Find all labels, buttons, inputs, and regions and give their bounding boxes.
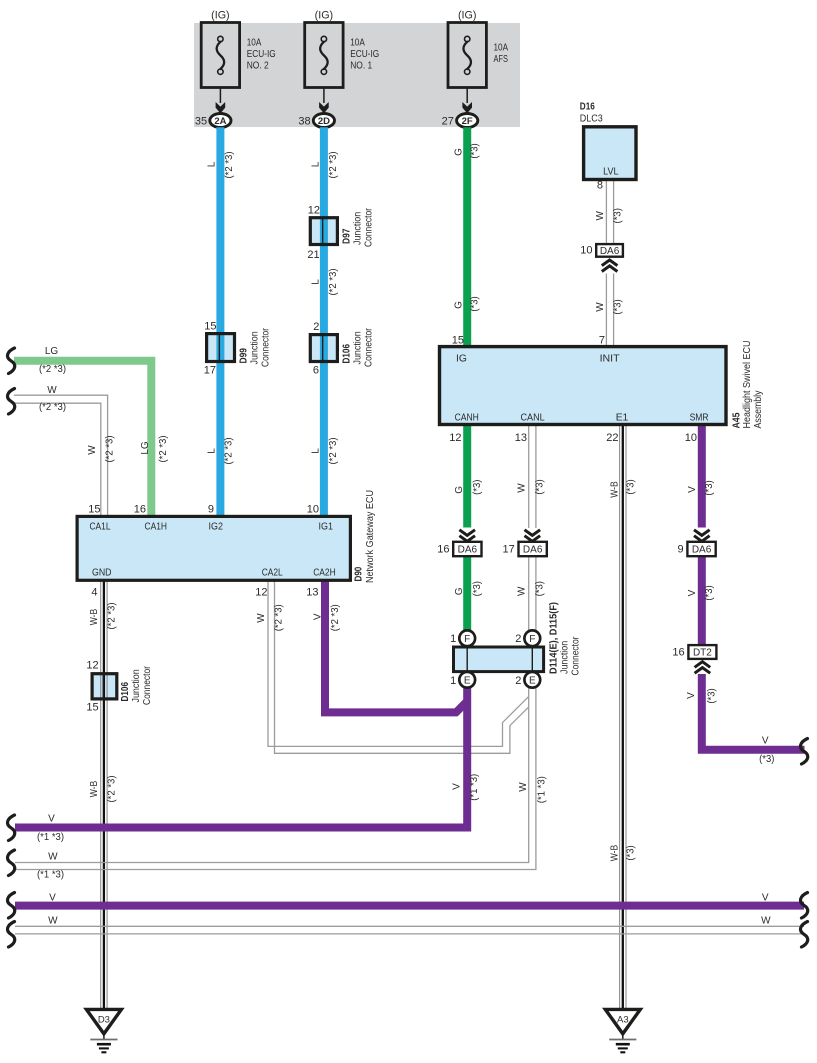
svg-text:D97: D97	[341, 228, 352, 244]
svg-text:W: W	[761, 916, 771, 927]
connector pin 38 2D (fuse output)	[323, 88, 325, 104]
junction connector D97 box fill	[310, 218, 337, 245]
svg-text:V: V	[49, 893, 56, 904]
svg-text:(*2 *3): (*2 *3)	[224, 438, 235, 465]
svg-text:(*3): (*3)	[707, 688, 718, 703]
svg-text:E: E	[529, 675, 536, 686]
ground A3	[605, 1009, 640, 1033]
svg-text:2: 2	[515, 675, 521, 687]
wire W: A45 CANL to DA6 pin 17	[528, 425, 530, 529]
wire LG: from left break to D90 CA1H	[14, 361, 151, 517]
wire G green: DA6 to D114 pin F1	[463, 556, 471, 630]
svg-text:V: V	[48, 814, 55, 825]
svg-text:Junction: Junction	[560, 641, 571, 674]
junction connector D106 (upper) box fill	[310, 335, 337, 362]
svg-text:Connector: Connector	[571, 636, 582, 675]
svg-text:D3: D3	[98, 1015, 110, 1026]
svg-text:Connector: Connector	[364, 208, 375, 247]
wire W: from left break to D90 CA1L (double line)	[14, 395, 108, 516]
break symbol right (V wire)	[800, 893, 807, 919]
svg-text:6: 6	[313, 365, 319, 377]
svg-text:G: G	[454, 486, 465, 494]
svg-text:D99: D99	[239, 348, 250, 364]
svg-text:(*3): (*3)	[535, 479, 546, 494]
svg-text:(*3): (*3)	[759, 754, 774, 765]
break symbol left (V wire)	[7, 893, 14, 919]
svg-text:L: L	[207, 448, 218, 454]
svg-text:GND: GND	[92, 568, 112, 579]
svg-text:17: 17	[204, 365, 216, 377]
svg-text:W: W	[517, 586, 528, 596]
svg-text:12: 12	[86, 660, 98, 672]
junction connector D99 box fill	[207, 334, 235, 362]
ECU D90 Network Gateway ECU (pins CA1L, CA1H, IG2, IG1, GND, CA2L, CA2H)	[77, 516, 350, 580]
svg-text:(*2 *3): (*2 *3)	[39, 364, 66, 375]
svg-text:SMR: SMR	[690, 413, 709, 424]
svg-text:(*1 *3): (*1 *3)	[469, 774, 480, 801]
svg-text:(*3): (*3)	[704, 585, 715, 600]
wire L blue: fuse 2D to D90 IG1 through D97 and D106	[320, 127, 328, 516]
svg-text:2D: 2D	[318, 116, 330, 127]
svg-text:Connector: Connector	[142, 666, 153, 705]
svg-text:G: G	[454, 148, 465, 156]
svg-text:D90: D90	[354, 566, 365, 581]
wire W: connector DA6 to A45 INIT pin 7	[605, 274, 607, 347]
svg-text:10A: 10A	[350, 38, 365, 49]
svg-text:AFS: AFS	[494, 54, 509, 65]
wire V purple: DT2 to right break (*3)	[702, 674, 805, 750]
break symbol right (V *3 wire)	[800, 739, 807, 765]
break symbol left (LG wire)	[7, 348, 14, 374]
svg-text:DA6: DA6	[600, 246, 620, 257]
svg-text:13: 13	[306, 587, 318, 599]
wire W: DA6 to D114 pin F2	[528, 556, 530, 630]
svg-text:W: W	[256, 613, 267, 623]
wire W: D90 CA2L to D114 pin E2 (double line with 45-degree jogs)	[268, 580, 528, 746]
fuse block background (ignition bus)	[194, 23, 520, 127]
svg-text:CANL: CANL	[521, 413, 545, 424]
wire L blue: fuse 2A to D90 IG2 through D99	[216, 127, 224, 516]
connector DA6 pin 17 (CANL) with chevron	[525, 530, 541, 536]
svg-text:CANH: CANH	[455, 413, 479, 424]
svg-text:Connector: Connector	[364, 328, 375, 367]
svg-text:13: 13	[515, 432, 527, 444]
wire W-B: A45 E1 pin 22 to ground A3	[619, 425, 621, 1010]
fuse 35 10A ECU-IG NO. 2 (IG)	[201, 23, 239, 88]
svg-text:(*3): (*3)	[704, 480, 715, 495]
svg-text:V: V	[687, 589, 698, 596]
svg-text:17: 17	[503, 543, 515, 555]
svg-text:16: 16	[134, 504, 146, 516]
svg-text:CA2L: CA2L	[262, 568, 283, 579]
svg-text:(*2 *3): (*2 *3)	[328, 438, 339, 465]
svg-text:DA6: DA6	[458, 545, 478, 556]
wire G green: fuse 2F to A45 IG	[463, 127, 471, 346]
svg-text:(*3): (*3)	[626, 845, 637, 860]
svg-text:(*3): (*3)	[613, 208, 624, 223]
svg-text:2: 2	[515, 633, 521, 645]
svg-text:V: V	[687, 486, 698, 493]
ECU A45 Headlight Swivel ECU Assembly (pins IG, INIT, CANH, CANL, E1, SMR)	[440, 347, 727, 425]
svg-text:(*1 *3): (*1 *3)	[37, 832, 64, 843]
svg-text:(*2 *3): (*2 *3)	[39, 402, 66, 413]
svg-text:W-B: W-B	[89, 780, 100, 797]
svg-text:(*1 *3): (*1 *3)	[37, 870, 64, 881]
svg-text:V: V	[452, 783, 463, 790]
svg-text:L: L	[310, 161, 321, 167]
svg-text:Network Gateway ECU: Network Gateway ECU	[365, 490, 376, 583]
svg-text:(*3): (*3)	[535, 581, 546, 596]
svg-text:(IG): (IG)	[211, 10, 230, 22]
wire V purple horizontal full-width (bottom)	[15, 902, 804, 910]
svg-text:ECU-IG: ECU-IG	[350, 49, 379, 60]
svg-text:(*2 *3): (*2 *3)	[274, 604, 285, 631]
connector pin 35 2A (fuse output)	[219, 88, 221, 104]
svg-text:12: 12	[255, 587, 267, 599]
svg-text:(*3): (*3)	[470, 296, 481, 311]
junction connector D106 (lower left) box fill	[92, 674, 117, 699]
svg-text:DA6: DA6	[692, 545, 712, 556]
svg-text:(*2 *3): (*2 *3)	[224, 152, 235, 179]
svg-text:9: 9	[208, 504, 214, 516]
svg-text:CA1L: CA1L	[90, 522, 111, 533]
svg-text:10: 10	[580, 245, 592, 257]
svg-text:38: 38	[298, 115, 310, 127]
junction connector D106 upper (pins 2/6)	[310, 335, 337, 362]
svg-text:W: W	[47, 385, 57, 396]
svg-text:D16: D16	[580, 102, 595, 113]
break symbol left (W *1*3 wire)	[7, 850, 14, 876]
svg-text:(*2 *3): (*2 *3)	[158, 436, 169, 463]
svg-text:(*2 *3): (*2 *3)	[105, 436, 116, 463]
break symbol left (V *1*3 wire)	[7, 815, 14, 841]
break symbol right (W wire bottom)	[800, 922, 807, 948]
svg-text:D106: D106	[341, 344, 352, 364]
svg-text:G: G	[454, 587, 465, 595]
svg-text:21: 21	[307, 249, 319, 261]
svg-text:V: V	[762, 735, 769, 746]
svg-text:1: 1	[450, 675, 456, 687]
svg-text:E1: E1	[616, 413, 629, 424]
svg-text:22: 22	[606, 432, 618, 444]
connector DA6 pin 16 (CANH) with chevron	[459, 530, 475, 536]
wire W: D114 pin E2 down to horizontal W (*1 *3) run	[15, 688, 529, 863]
svg-text:W: W	[48, 852, 58, 863]
fuse 38 10A ECU-IG NO. 1 (IG)	[305, 23, 343, 88]
svg-text:10: 10	[685, 432, 697, 444]
svg-text:Junction: Junction	[353, 212, 364, 245]
svg-text:(*2 *3): (*2 *3)	[107, 603, 118, 630]
svg-text:2F: 2F	[462, 116, 473, 127]
svg-text:W-B: W-B	[610, 844, 621, 861]
connector DT2 pin 16 with chevron	[688, 645, 716, 659]
svg-text:W: W	[518, 782, 529, 792]
svg-text:IG: IG	[456, 354, 467, 365]
wire G green: A45 CANH to DA6 pin 16	[463, 425, 471, 528]
svg-text:DA6: DA6	[523, 545, 543, 556]
svg-text:W: W	[517, 483, 528, 493]
svg-text:15: 15	[88, 504, 100, 516]
svg-text:LG: LG	[140, 441, 151, 455]
svg-text:7: 7	[599, 335, 605, 347]
svg-text:D106: D106	[120, 682, 131, 702]
svg-text:IG2: IG2	[209, 522, 224, 533]
svg-text:1: 1	[450, 633, 456, 645]
svg-text:(*3): (*3)	[472, 480, 483, 495]
svg-text:G: G	[454, 301, 465, 309]
svg-text:INIT: INIT	[600, 354, 621, 365]
junction connector D99 (pins 15/17)	[207, 334, 235, 362]
junction connector D114(E), D115(F) with pins F1 F2 E1 E2	[454, 647, 544, 672]
svg-text:DLC3: DLC3	[580, 114, 603, 125]
break symbol left (W wire)	[7, 389, 14, 415]
svg-text:(*2 *3): (*2 *3)	[328, 269, 339, 296]
svg-text:V: V	[762, 893, 769, 904]
svg-text:15: 15	[86, 702, 98, 714]
svg-text:12: 12	[308, 205, 320, 217]
svg-text:NO. 2: NO. 2	[247, 61, 269, 72]
svg-text:4: 4	[91, 587, 97, 599]
svg-text:2A: 2A	[214, 116, 226, 127]
svg-text:IG1: IG1	[319, 522, 334, 533]
svg-text:F: F	[464, 634, 470, 645]
fuse 27 10A AFS (IG)	[448, 23, 486, 88]
svg-text:15: 15	[204, 321, 216, 333]
svg-text:10A: 10A	[494, 43, 509, 54]
svg-text:ECU-IG: ECU-IG	[247, 49, 276, 60]
svg-text:10A: 10A	[247, 38, 262, 49]
svg-text:15: 15	[452, 335, 464, 347]
wire W horizontal full-width (bottom)	[15, 925, 804, 927]
svg-text:DT2: DT2	[693, 648, 712, 659]
connector pin 27 2F (fuse output)	[466, 88, 468, 104]
connector D16 DLC3 (pin LVL / 8)	[584, 127, 636, 180]
wire V purple: DA6 to DT2 pin 16	[698, 556, 706, 645]
svg-text:27: 27	[442, 115, 454, 127]
svg-text:A3: A3	[617, 1015, 629, 1026]
svg-text:D114(E), D115(F): D114(E), D115(F)	[549, 602, 560, 674]
svg-text:W-B: W-B	[89, 608, 100, 625]
svg-text:(*2 *3): (*2 *3)	[107, 776, 118, 803]
svg-text:(IG): (IG)	[315, 10, 334, 22]
svg-text:W: W	[595, 211, 606, 221]
svg-text:16: 16	[672, 647, 684, 659]
svg-text:Assembly: Assembly	[753, 390, 764, 429]
svg-text:Junction: Junction	[353, 331, 364, 364]
svg-text:L: L	[310, 448, 321, 454]
svg-text:A45: A45	[732, 412, 743, 428]
svg-text:Junction: Junction	[250, 331, 261, 364]
svg-text:Headlight Swivel ECU: Headlight Swivel ECU	[742, 341, 753, 429]
svg-text:(*3): (*3)	[472, 581, 483, 596]
junction connector D106 lower-left (pins 12/15)	[92, 674, 117, 699]
svg-text:35: 35	[195, 115, 207, 127]
svg-text:16: 16	[437, 543, 449, 555]
svg-text:(IG): (IG)	[458, 10, 477, 22]
svg-text:L: L	[207, 161, 218, 167]
svg-text:9: 9	[677, 543, 683, 555]
svg-text:NO. 1: NO. 1	[350, 61, 372, 72]
svg-text:2: 2	[313, 321, 319, 333]
svg-text:(*2 *3): (*2 *3)	[330, 604, 341, 631]
svg-text:CA1H: CA1H	[145, 522, 168, 533]
svg-text:Junction: Junction	[131, 669, 142, 702]
break symbol left (W wire bottom)	[7, 922, 14, 948]
svg-text:(*2 *3): (*2 *3)	[328, 152, 339, 179]
svg-text:F: F	[529, 634, 535, 645]
svg-text:12: 12	[449, 432, 461, 444]
svg-text:8: 8	[597, 180, 603, 192]
connector DA6 pin 10 (DLC3 branch) with chevron	[596, 244, 623, 257]
wire W: DLC3 LVL pin 8 to connector DA6 pin 10	[605, 180, 607, 245]
svg-text:L: L	[310, 279, 321, 285]
svg-text:(*1 *3): (*1 *3)	[537, 776, 548, 803]
ground D3	[86, 1009, 121, 1033]
svg-text:CA2H: CA2H	[313, 568, 336, 579]
svg-text:E: E	[464, 675, 471, 686]
wire V purple: A45 SMR to DA6 pin 9	[698, 425, 706, 528]
svg-text:W: W	[87, 445, 98, 455]
svg-text:10: 10	[307, 504, 319, 516]
svg-text:Connector: Connector	[261, 328, 272, 367]
connector DA6 pin 9 (SMR) with chevron	[694, 530, 710, 536]
svg-text:V: V	[313, 613, 324, 620]
svg-text:V: V	[686, 692, 697, 699]
svg-text:LVL: LVL	[603, 167, 619, 178]
svg-text:(*3): (*3)	[470, 143, 481, 158]
svg-text:(*3): (*3)	[613, 299, 624, 314]
svg-text:W-B: W-B	[610, 481, 621, 498]
wire V purple: D114 pin E1 down to left break (*1 *3)	[15, 688, 467, 828]
wire V purple: D90 CA2H down and right to D114 pin E1	[325, 580, 467, 712]
svg-text:W: W	[48, 916, 58, 927]
wire W-B: D90 GND pin 4 to ground D3 through D106	[100, 580, 102, 1009]
svg-text:W: W	[595, 302, 606, 312]
svg-text:LG: LG	[45, 346, 59, 357]
junction connector D97 (pins 12/21)	[310, 218, 337, 245]
svg-text:(*3): (*3)	[626, 479, 637, 494]
